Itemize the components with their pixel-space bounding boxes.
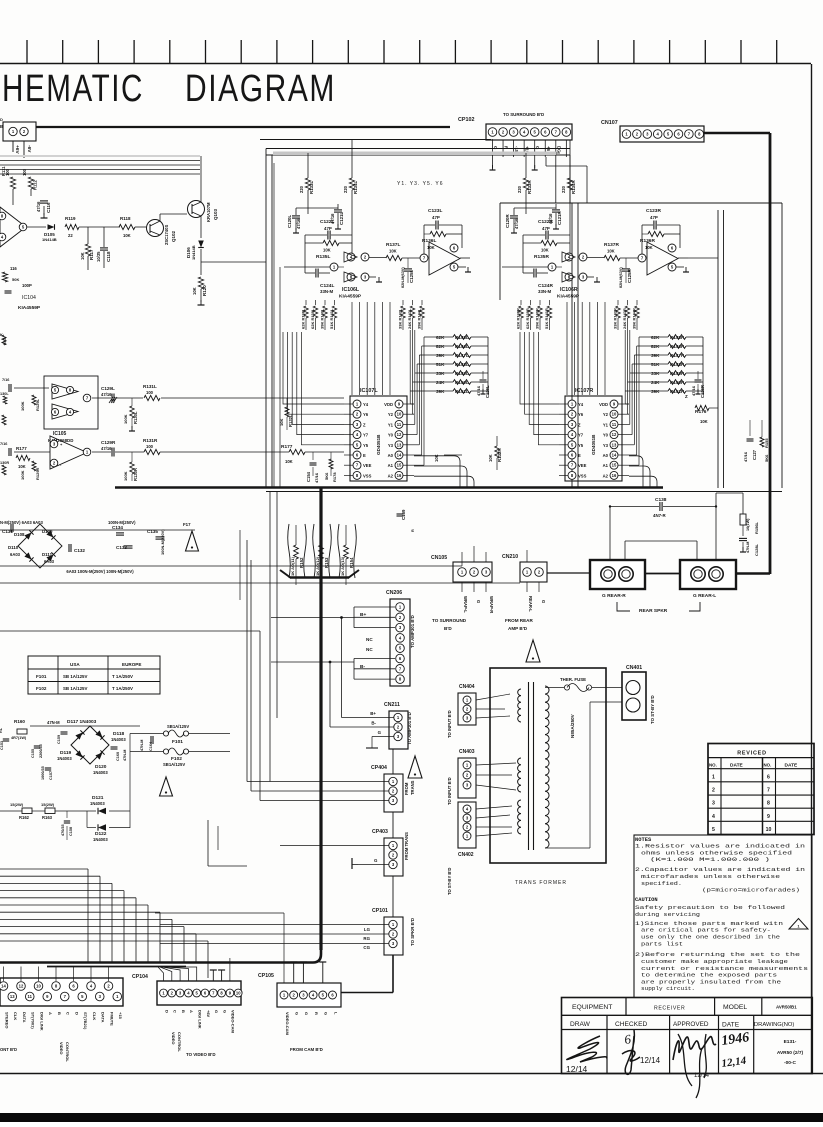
svg-text:1N4003: 1N4003	[57, 756, 72, 761]
svg-text:3: 3	[712, 801, 715, 807]
svg-text:APPROVED: APPROVED	[673, 1021, 709, 1028]
svg-text:KRA107M: KRA107M	[206, 202, 211, 222]
svg-text:VIDEO: VIDEO	[59, 1042, 64, 1054]
svg-text:82N-M(63V): 82N-M(63V)	[619, 267, 623, 288]
svg-text:R137R: R137R	[604, 242, 619, 248]
svg-text:R119: R119	[65, 216, 76, 221]
svg-text:R135L: R135L	[316, 254, 330, 260]
svg-text:AVR50/B1: AVR50/B1	[776, 1005, 797, 1010]
svg-text:47/16: 47/16	[314, 472, 319, 483]
svg-text:REAR SPKR: REAR SPKR	[639, 608, 668, 614]
svg-text:14: 14	[612, 453, 617, 458]
svg-text:220: 220	[343, 185, 348, 193]
svg-text:CONTROL: CONTROL	[177, 1032, 182, 1052]
svg-text:CP404: CP404	[371, 765, 387, 771]
svg-text:R146R: R146R	[670, 344, 685, 349]
svg-text:THER. FUSE: THER. FUSE	[560, 677, 586, 682]
svg-text:Y4: Y4	[578, 402, 584, 407]
svg-text:R145R: R145R	[670, 335, 685, 340]
svg-text:-00-C: -00-C	[784, 1060, 797, 1066]
svg-text:REVICED: REVICED	[737, 751, 767, 757]
svg-text:Y6: Y6	[578, 412, 584, 417]
svg-text:130L: 130L	[0, 392, 9, 396]
svg-text:A1: A1	[388, 463, 394, 468]
svg-text:62K R139L: 62K R139L	[310, 308, 315, 329]
svg-text:R178: R178	[332, 472, 337, 482]
svg-text:15: 15	[397, 463, 402, 468]
svg-text:C118: C118	[106, 251, 111, 262]
svg-text:DATE: DATE	[722, 1022, 740, 1029]
svg-text:R177: R177	[16, 446, 27, 451]
svg-text:R129R: R129R	[35, 467, 40, 480]
svg-text:62K: 62K	[436, 335, 445, 340]
svg-text:T 1A/250V: T 1A/250V	[112, 674, 133, 679]
svg-text:microfarades unless otherwis: microfarades unless otherwise	[641, 874, 780, 880]
svg-text:1N4003: 1N4003	[93, 837, 108, 842]
svg-text:R129L: R129L	[35, 398, 40, 411]
svg-text:parts list: parts list	[641, 941, 683, 947]
svg-text:C126L: C126L	[485, 385, 490, 398]
svg-text:DIGI LINK: DIGI LINK	[39, 1012, 44, 1031]
svg-text:1N4003: 1N4003	[90, 801, 105, 806]
svg-text:51K: 51K	[651, 362, 660, 367]
svg-text:D110: D110	[8, 545, 19, 550]
svg-text:LG: LG	[364, 927, 371, 932]
svg-text:R162: R162	[19, 815, 30, 820]
svg-text:B'D: B'D	[444, 626, 452, 631]
svg-text:EQUIPMENT: EQUIPMENT	[572, 1004, 612, 1011]
svg-text:33N-M: 33N-M	[320, 289, 334, 294]
svg-text:VDD: VDD	[599, 402, 608, 407]
svg-text:+6V: +6V	[14, 145, 20, 154]
svg-text:KIA4559P: KIA4559P	[339, 294, 362, 300]
svg-text:TO VIDEO B'D: TO VIDEO B'D	[186, 1052, 216, 1057]
svg-text:39K R144R: 39K R144R	[632, 308, 637, 329]
svg-text:A2: A2	[603, 473, 609, 478]
svg-text:10: 10	[397, 412, 402, 417]
svg-text:ONT B'D: ONT B'D	[0, 1047, 17, 1052]
svg-text:39K: 39K	[651, 353, 660, 358]
svg-text:47P: 47P	[432, 215, 440, 220]
svg-text:B: B	[57, 1012, 62, 1015]
svg-text:6A03: 6A03	[44, 559, 55, 564]
svg-text:33K: 33K	[436, 371, 445, 376]
svg-text:R133R: R133R	[527, 180, 532, 194]
svg-text:CG: CG	[363, 945, 370, 950]
svg-text:39K: 39K	[436, 389, 445, 394]
svg-text:10: 10	[236, 991, 241, 996]
svg-text:47/16: 47/16	[101, 446, 112, 451]
svg-text:4R7(1W): 4R7(1W)	[11, 736, 27, 740]
svg-text:4: 4	[712, 814, 715, 820]
svg-text:CN402: CN402	[458, 852, 474, 858]
svg-text:47/16: 47/16	[691, 385, 696, 396]
svg-text:RG: RG	[363, 936, 370, 941]
svg-text:R131L: R131L	[143, 384, 157, 389]
svg-text:D106: D106	[186, 247, 191, 258]
svg-text:R151L: R151L	[455, 389, 469, 394]
svg-text:R135R: R135R	[534, 254, 549, 260]
svg-text:A: A	[48, 1012, 53, 1015]
svg-text:C125L: C125L	[409, 270, 414, 283]
svg-text:47/16: 47/16	[101, 392, 112, 397]
svg-text:CAUTION: CAUTION	[635, 897, 658, 903]
svg-text:1000/35: 1000/35	[41, 766, 45, 780]
svg-text:FROM TRANS: FROM TRANS	[404, 832, 409, 860]
svg-text:C134: C134	[112, 525, 123, 530]
svg-text:SB 1A/125V: SB 1A/125V	[63, 674, 87, 679]
svg-text:15: 15	[612, 463, 617, 468]
svg-text:51K R141L: 51K R141L	[329, 308, 334, 329]
svg-text:use only the one described in: use only the one described in the	[641, 935, 780, 941]
svg-text:C120L: C120L	[287, 215, 292, 228]
svg-text:47N-M: 47N-M	[123, 750, 127, 761]
svg-text:10: 10	[36, 984, 41, 989]
svg-text:G: G	[295, 1012, 300, 1015]
svg-text:C158: C158	[69, 827, 73, 836]
svg-text:TO ST-BY B'D: TO ST-BY B'D	[650, 695, 655, 724]
svg-text:R151R: R151R	[670, 389, 685, 394]
svg-text:C120R: C120R	[505, 214, 510, 228]
svg-text:47N-M: 47N-M	[140, 740, 144, 751]
svg-text:39K R140R: 39K R140R	[535, 308, 540, 329]
svg-text:5: 5	[712, 827, 715, 833]
svg-text:C123L: C123L	[428, 208, 442, 214]
svg-text:CN210: CN210	[502, 554, 518, 560]
svg-text:82K: 82K	[436, 344, 445, 349]
svg-text:customer make appropriate leak: customer make appropriate leakage	[641, 959, 788, 965]
svg-text:are critical parts for safety-: are critical parts for safety-	[641, 928, 771, 934]
svg-text:(p=micro=microfarades): (p=micro=microfarades)	[702, 888, 800, 894]
svg-text:14: 14	[1, 984, 6, 989]
svg-text:F102: F102	[36, 686, 47, 691]
svg-text:2)Before returning the set: 2)Before returning the set to the	[635, 952, 800, 958]
svg-text:R148R: R148R	[670, 362, 685, 367]
svg-text:16: 16	[397, 473, 402, 478]
svg-text:47/16: 47/16	[296, 218, 301, 229]
svg-text:R112: R112	[33, 180, 38, 190]
svg-text:51K R141R: 51K R141R	[544, 308, 549, 329]
svg-text:C116: C116	[46, 202, 51, 213]
svg-text:C154: C154	[306, 471, 311, 482]
svg-text:C128L: C128L	[754, 543, 759, 556]
svg-text:MODEL: MODEL	[723, 1004, 747, 1011]
svg-text:10K: 10K	[645, 245, 653, 250]
svg-text:100K: 100K	[123, 414, 128, 424]
svg-text:+15: +15	[118, 1012, 123, 1020]
svg-text:R160: R160	[14, 719, 25, 724]
svg-text:116: 116	[10, 266, 17, 271]
svg-text:10: 10	[612, 412, 617, 417]
svg-text:R131R: R131R	[143, 438, 158, 443]
svg-text:HEMATIC: HEMATIC	[2, 68, 144, 110]
svg-text:47P: 47P	[542, 226, 550, 231]
svg-text:10K: 10K	[389, 249, 397, 254]
svg-text:13: 13	[397, 442, 402, 447]
svg-text:A0: A0	[388, 453, 394, 458]
svg-text:8: 8	[767, 801, 770, 807]
svg-text:R118: R118	[120, 216, 131, 221]
svg-text:R146L: R146L	[455, 344, 469, 349]
svg-text:R134L: R134L	[353, 181, 358, 194]
svg-text:R120: R120	[202, 285, 207, 296]
svg-text:10K: 10K	[427, 245, 435, 250]
svg-text:TO SURROUND: TO SURROUND	[432, 618, 467, 623]
svg-text:33K: 33K	[651, 371, 660, 376]
svg-text:TO ST-BY B'D: TO ST-BY B'D	[447, 868, 452, 895]
svg-text:CP102: CP102	[458, 117, 474, 123]
svg-text:82K: 82K	[651, 344, 660, 349]
svg-text:1N414B: 1N414B	[42, 237, 57, 242]
svg-text:F101: F101	[36, 674, 47, 679]
svg-text:R134R: R134R	[571, 180, 576, 194]
svg-text:DATA: DATA	[22, 1012, 27, 1023]
svg-text:CP104: CP104	[132, 974, 148, 980]
svg-text:SB1A/125V: SB1A/125V	[163, 762, 185, 767]
svg-text:EUROPE: EUROPE	[122, 662, 141, 667]
svg-text:G: G	[541, 600, 546, 603]
svg-text:R145L: R145L	[455, 335, 469, 340]
svg-text:R137L: R137L	[386, 242, 400, 248]
svg-text:G: G	[374, 858, 378, 863]
svg-text:10: 10	[766, 827, 772, 833]
svg-text:IC107R: IC107R	[575, 388, 593, 394]
svg-text:11: 11	[397, 422, 402, 427]
svg-text:Y0: Y0	[603, 433, 609, 438]
svg-text:R: R	[411, 529, 415, 532]
svg-text:R148L: R148L	[455, 362, 469, 367]
svg-text:TO SURROUND B'D: TO SURROUND B'D	[503, 112, 544, 117]
svg-text:Y6: Y6	[363, 412, 369, 417]
svg-text:R150R: R150R	[670, 380, 685, 385]
svg-text:100K: 100K	[20, 401, 25, 411]
svg-text:12: 12	[397, 432, 402, 437]
svg-text:1N4003: 1N4003	[93, 770, 108, 775]
svg-text:220: 220	[517, 185, 522, 193]
svg-text:TO AMP101 B'D: TO AMP101 B'D	[407, 712, 412, 745]
svg-text:12/14: 12/14	[566, 1064, 588, 1074]
svg-text:D: D	[0, 117, 3, 122]
svg-text:B-: B-	[371, 721, 376, 726]
svg-text:39K: 39K	[651, 389, 660, 394]
svg-text:62K R138R: 62K R138R	[516, 308, 521, 329]
svg-text:DIGI LINK: DIGI LINK	[198, 1010, 203, 1029]
svg-text:VIDEO: VIDEO	[171, 1032, 176, 1044]
svg-text:11: 11	[28, 994, 33, 999]
svg-text:R163: R163	[42, 815, 53, 820]
svg-text:G: G	[476, 600, 481, 603]
svg-text:C: C	[66, 1012, 71, 1015]
svg-text:24K R143L: 24K R143L	[407, 308, 412, 329]
svg-text:(K=1.000 M=1.000.000 ): (K=1.000 M=1.000.000 )	[650, 857, 770, 863]
svg-text:R176: R176	[695, 409, 707, 415]
svg-text:D109: D109	[42, 529, 53, 534]
svg-text:SB1A/125V: SB1A/125V	[167, 724, 189, 729]
svg-text:Z: Z	[363, 422, 366, 427]
svg-text:A: A	[189, 1010, 194, 1013]
svg-text:+6V: +6V	[206, 1010, 211, 1018]
svg-text:C131: C131	[2, 529, 13, 534]
svg-text:T 1A/250V: T 1A/250V	[112, 686, 133, 691]
svg-text:R132L: R132L	[288, 414, 293, 427]
svg-text:CLK: CLK	[13, 1012, 18, 1020]
svg-text:10K: 10K	[285, 459, 293, 464]
svg-text:62K R139R: 62K R139R	[525, 308, 530, 329]
svg-text:CP101: CP101	[372, 908, 388, 914]
svg-text:TO INPUT B'D: TO INPUT B'D	[447, 777, 452, 805]
svg-text:R155: R155	[764, 438, 769, 448]
svg-text:-6V: -6V	[26, 145, 32, 153]
svg-text:Y4: Y4	[363, 402, 369, 407]
svg-text:IC105: IC105	[53, 431, 67, 437]
svg-text:DATE: DATE	[730, 763, 744, 769]
svg-text:G: G	[214, 1010, 219, 1013]
svg-text:KIA4559P: KIA4559P	[18, 305, 41, 311]
svg-text:R147R: R147R	[670, 353, 685, 358]
svg-text:9: 9	[767, 814, 770, 820]
svg-text:D111: D111	[42, 552, 53, 557]
svg-text:C133: C133	[116, 545, 127, 550]
svg-text:CP403: CP403	[372, 829, 388, 835]
svg-text:are properly insulated from: are properly insulated from the	[641, 979, 781, 985]
svg-text:39K: 39K	[436, 353, 445, 358]
svg-text:C157: C157	[49, 771, 53, 780]
svg-text:47P: 47P	[650, 215, 658, 220]
svg-text:C121L: C121L	[339, 212, 344, 225]
svg-text:N85A/250V: N85A/250V	[570, 713, 575, 738]
svg-text:2: 2	[712, 787, 715, 793]
svg-text:DATA: DATA	[101, 1012, 106, 1023]
svg-text:62K: 62K	[651, 335, 660, 340]
svg-text:47N-M: 47N-M	[746, 542, 750, 553]
svg-text:NO.: NO.	[709, 763, 717, 768]
svg-text:10K: 10K	[607, 249, 615, 254]
svg-text:10K: 10K	[80, 252, 85, 260]
svg-text:Safety precaution to be fol: Safety precaution to be followed	[635, 905, 785, 911]
svg-text:2SC1740S: 2SC1740S	[164, 225, 169, 245]
svg-text:NC: NC	[366, 647, 373, 652]
svg-text:during servicing: during servicing	[635, 912, 700, 918]
svg-text:Z: Z	[578, 422, 581, 427]
svg-text:12: 12	[612, 432, 617, 437]
svg-text:DRAWING(NO): DRAWING(NO)	[754, 1022, 794, 1028]
svg-text:Y7: Y7	[578, 433, 584, 438]
svg-text:220: 220	[299, 185, 304, 193]
svg-text:E: E	[578, 453, 581, 458]
svg-text:14: 14	[397, 453, 402, 458]
svg-text:C138: C138	[655, 497, 667, 503]
svg-text:Q103: Q103	[213, 208, 218, 220]
svg-text:47P: 47P	[324, 226, 332, 231]
svg-text:13: 13	[612, 442, 617, 447]
svg-text:RECEIVER: RECEIVER	[654, 1006, 685, 1012]
svg-text:IC104: IC104	[22, 295, 36, 301]
svg-text:C159: C159	[57, 735, 61, 744]
svg-text:16: 16	[612, 473, 617, 478]
svg-text:B+: B+	[360, 612, 366, 618]
svg-text:R130R: R130R	[133, 468, 138, 481]
svg-text:R133L: R133L	[309, 181, 314, 194]
svg-text:Y1. Y3. Y5. Y6: Y1. Y3. Y5. Y6	[397, 181, 444, 187]
svg-text:R117: R117	[89, 249, 94, 260]
svg-text:IC106L: IC106L	[342, 287, 360, 293]
svg-text:1.Resistor values are indic: 1.Resistor values are indicated in	[635, 844, 805, 850]
svg-text:4N7-R: 4N7-R	[653, 513, 667, 518]
svg-text:CN105: CN105	[431, 555, 447, 561]
svg-text:D: D	[74, 1012, 79, 1015]
svg-text:C122R: C122R	[538, 219, 553, 225]
svg-text:R130L: R130L	[133, 411, 138, 424]
svg-text:RL: RL	[0, 727, 3, 733]
svg-text:100: 100	[146, 390, 154, 395]
svg-text:50K: 50K	[12, 277, 19, 282]
svg-text:supply circuit.: supply circuit.	[641, 986, 695, 992]
svg-text:VSS: VSS	[578, 473, 587, 478]
svg-text:C160: C160	[116, 752, 120, 761]
svg-text:C153: C153	[0, 741, 4, 750]
svg-text:TRANS FORMER: TRANS FORMER	[515, 880, 567, 886]
svg-text:D117 1N4003: D117 1N4003	[67, 719, 97, 725]
svg-text:24K R143R: 24K R143R	[622, 308, 627, 329]
svg-text:NOTES: NOTES	[635, 837, 652, 843]
svg-text:G: G	[378, 730, 382, 735]
svg-text:TO SPKR B'D: TO SPKR B'D	[410, 918, 415, 946]
svg-text:E131-: E131-	[784, 1039, 797, 1045]
svg-text:11: 11	[612, 422, 617, 427]
svg-text:CLK: CLK	[92, 1012, 97, 1020]
svg-text:1)Since those parts marked: 1)Since those parts marked witn	[635, 921, 783, 927]
svg-text:NO.: NO.	[764, 763, 772, 768]
svg-text:Y1: Y1	[603, 422, 609, 427]
svg-text:FROM REAR: FROM REAR	[505, 618, 533, 623]
svg-text:D: D	[164, 1010, 169, 1013]
svg-text:10K: 10K	[488, 454, 493, 462]
svg-text:C155: C155	[31, 749, 35, 758]
svg-text:10/35: 10/35	[96, 251, 101, 262]
svg-text:100K: 100K	[20, 470, 25, 480]
svg-text:Y1: Y1	[388, 422, 394, 427]
svg-text:Y5: Y5	[578, 443, 584, 448]
svg-text:100: 100	[146, 444, 154, 449]
svg-text:D108: D108	[14, 532, 25, 537]
svg-text:6A03: 6A03	[10, 552, 21, 557]
svg-text:Y5: Y5	[363, 443, 369, 448]
svg-text:USA: USA	[70, 662, 80, 667]
svg-text:7/16: 7/16	[0, 442, 7, 446]
svg-text:10K: 10K	[18, 464, 26, 469]
svg-text:A2: A2	[388, 473, 394, 478]
svg-text:1: 1	[712, 774, 715, 780]
svg-text:Q102: Q102	[171, 230, 176, 242]
svg-text:R: R	[314, 1012, 319, 1015]
svg-text:R150L: R150L	[455, 380, 469, 385]
svg-text:TRANS: TRANS	[410, 780, 415, 795]
svg-text:47N-M: 47N-M	[47, 720, 60, 725]
svg-text:CN107: CN107	[601, 120, 618, 126]
svg-text:C135: C135	[147, 529, 158, 534]
svg-text:Y3: Y3	[603, 443, 609, 448]
svg-text:470/35: 470/35	[61, 824, 65, 836]
svg-text:B-: B-	[360, 664, 365, 670]
svg-text:5K6: 5K6	[324, 472, 329, 480]
svg-text:Y0: Y0	[388, 433, 394, 438]
svg-text:FROM: FROM	[404, 782, 409, 795]
svg-text:AVR50 (2/7): AVR50 (2/7)	[777, 1050, 804, 1056]
svg-text:C127: C127	[752, 449, 757, 460]
svg-text:G: G	[535, 146, 540, 150]
svg-text:ST(7001): ST(7001)	[31, 1012, 36, 1029]
svg-text:IC107L: IC107L	[360, 388, 378, 394]
